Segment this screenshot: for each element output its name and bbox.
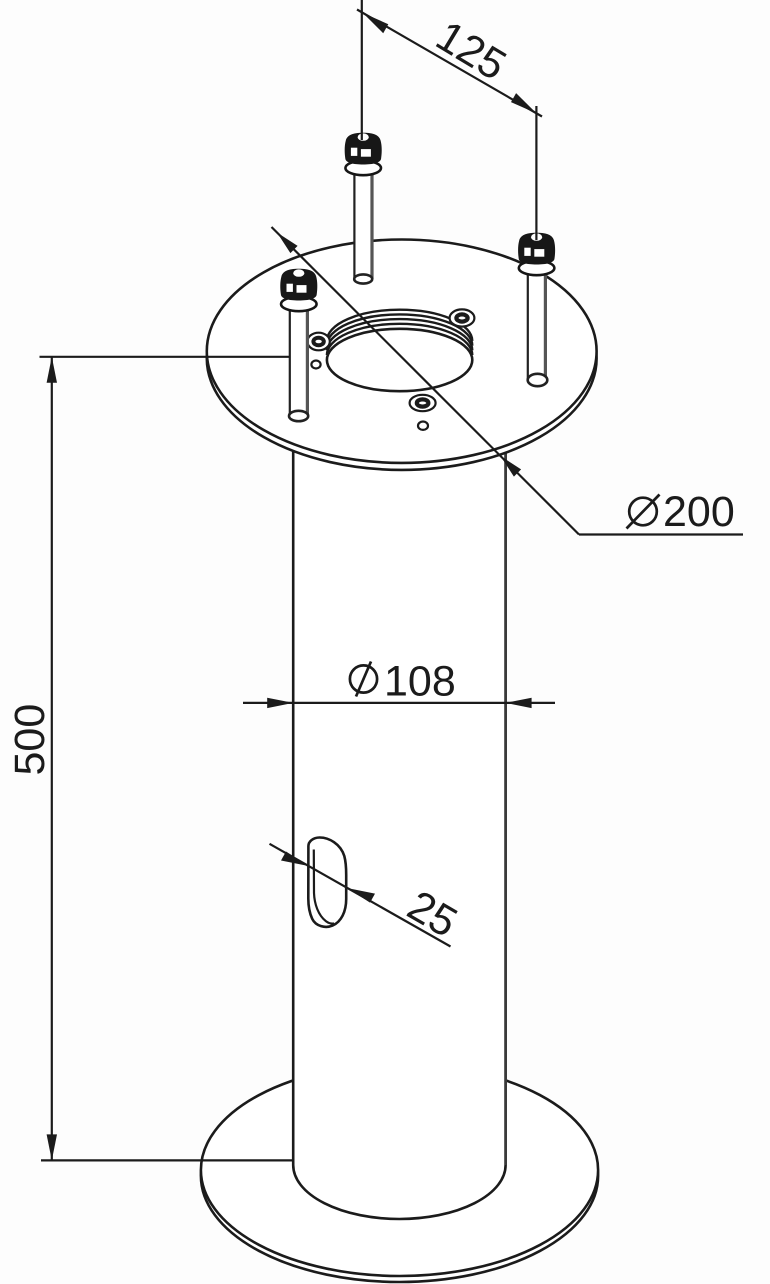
stud bolt front (shaft)	[354, 165, 372, 284]
dimension 500: bottom arrow	[47, 1134, 57, 1160]
dimension 500: top arrow	[47, 357, 57, 383]
svg-text:200: 200	[663, 488, 735, 536]
dimension 500: bottom extension line	[41, 1159, 295, 1161]
top flange lower edge (thickness)	[207, 247, 597, 470]
leader Ø200: diameter symbol	[627, 495, 660, 529]
svg-text:108: 108	[384, 658, 456, 706]
svg-text:500: 500	[6, 704, 54, 776]
collar arc 2	[327, 319, 472, 350]
dimension 125: left extension line	[361, 0, 363, 140]
stud bolt front (nut)	[345, 133, 382, 176]
leader Ø200: upper arrow at flange edge	[277, 233, 298, 254]
dimension Ø108: dimension line	[243, 702, 555, 704]
cylinder right edge	[504, 446, 507, 1165]
stud bolt right (shaft)	[528, 264, 548, 386]
slot cutout on cylinder	[308, 837, 346, 926]
stud bolt left (nut)	[280, 269, 317, 312]
collar arc 4	[327, 310, 472, 341]
dimension 500: top extension line	[40, 356, 290, 358]
right boss on flange	[450, 309, 475, 326]
cylinder body fill	[293, 448, 505, 1219]
dimension Ø108: diameter symbol	[350, 662, 377, 697]
collar arc 1	[327, 324, 472, 355]
cylinder bottom rim	[293, 1165, 505, 1219]
bottom flange lower edge (thickness)	[201, 1070, 598, 1282]
dimension Ø108: left arrow	[267, 698, 293, 708]
leader 25: diagonal line	[270, 844, 451, 947]
dimension 125: lower arrow	[511, 93, 537, 113]
dimension 125: upper arrow	[363, 13, 389, 33]
dimension 125: dimension line	[357, 10, 542, 117]
top flange top face	[207, 240, 597, 463]
leader Ø200: lower arrow at flange edge	[501, 456, 522, 477]
bottom boss on flange	[410, 395, 436, 411]
collar arc 3	[327, 314, 472, 345]
center hole	[327, 329, 472, 391]
left boss on flange	[307, 333, 329, 351]
leader 25: lower arrow	[348, 888, 376, 903]
stud bolt left (shaft)	[289, 300, 308, 421]
small hole left	[311, 361, 320, 369]
leader Ø200: diagonal line	[272, 227, 580, 535]
leader 25: upper arrow	[281, 852, 309, 867]
stud bolt right (nut)	[518, 233, 555, 276]
bottom flange top face	[201, 1064, 598, 1276]
dimension 500: dimension line	[51, 357, 53, 1161]
dimension Ø108: right arrow	[506, 698, 532, 708]
small hole bottom	[418, 422, 428, 430]
slot inner wall edge	[314, 850, 335, 924]
dimension 125: right extension line	[535, 106, 537, 240]
cylinder left edge	[292, 440, 295, 1165]
leader Ø200: horizontal line	[579, 533, 743, 535]
